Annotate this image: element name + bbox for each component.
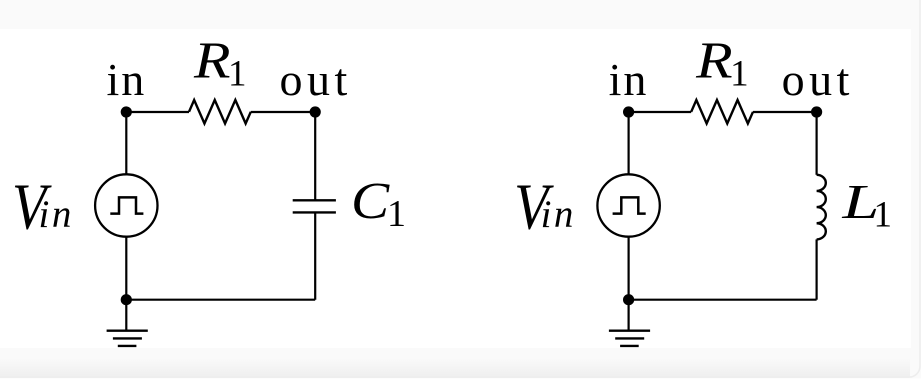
ground <box>107 331 148 346</box>
svg-text:out: out <box>280 54 352 105</box>
wire right vertical upper <box>314 112 316 200</box>
node out (right) <box>811 106 822 117</box>
voltage source V_in <box>597 174 659 236</box>
wire top-left segment <box>629 111 692 113</box>
svg-text:in: in <box>609 54 649 105</box>
svg-text:in: in <box>541 193 576 236</box>
junction (left bottom) <box>121 294 132 305</box>
wire bottom <box>126 299 315 301</box>
wire right vertical lower <box>815 239 817 299</box>
ground <box>609 331 650 346</box>
inductor L1 <box>817 175 826 240</box>
node out (left) <box>310 106 321 117</box>
svg-text:out: out <box>782 54 854 105</box>
wire top-left segment <box>126 111 189 113</box>
svg-text:1: 1 <box>874 195 893 236</box>
wire left vertical lower <box>125 237 127 331</box>
svg-text:in: in <box>107 54 147 105</box>
wire right vertical upper <box>815 112 817 175</box>
wire bottom <box>629 299 817 301</box>
svg-text:in: in <box>39 193 74 236</box>
wire top-right segment <box>753 111 817 113</box>
capacitor C1 <box>293 200 336 212</box>
svg-text:1: 1 <box>730 53 749 94</box>
svg-text:1: 1 <box>228 53 247 94</box>
svg-text:R: R <box>193 32 231 90</box>
pulse symbol <box>110 197 143 213</box>
svg-text:1: 1 <box>387 193 406 235</box>
voltage source V_in <box>95 174 157 236</box>
wire left vertical upper <box>125 112 127 174</box>
wire right vertical lower <box>314 213 316 300</box>
area below card <box>0 377 921 379</box>
wire left vertical lower <box>627 237 629 331</box>
svg-text:R: R <box>695 32 733 90</box>
junction (right bottom) <box>623 294 634 305</box>
wire left vertical upper <box>627 112 629 174</box>
resistor R1 <box>189 100 251 124</box>
resistor R1 <box>691 100 753 124</box>
node in (left) <box>121 106 132 117</box>
pulse symbol <box>613 197 646 213</box>
node in (right) <box>623 106 634 117</box>
svg-text:C: C <box>351 171 390 229</box>
wire top-right segment <box>251 111 315 113</box>
